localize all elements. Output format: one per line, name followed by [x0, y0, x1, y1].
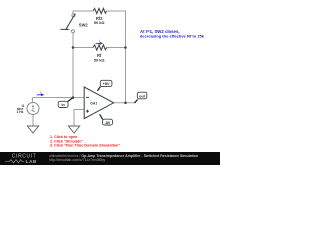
- svg-text:SW2: SW2: [79, 22, 89, 27]
- svg-text:1 Hz: 1 Hz: [17, 110, 24, 114]
- svg-text:LAB: LAB: [26, 159, 37, 164]
- svg-text:50 kΩ: 50 kΩ: [94, 20, 105, 25]
- svg-text:3. Click “Run Time Domain Simu: 3. Click “Run Time Domain Simulation”: [50, 144, 120, 148]
- svg-text:out: out: [139, 94, 146, 98]
- svg-text:1. Click to open: 1. Click to open: [50, 135, 78, 139]
- svg-text:http://circuitlab.com/c/711z7x: http://circuitlab.com/c/711z7xm3f6by: [49, 158, 106, 162]
- svg-text:50 kΩ: 50 kΩ: [94, 57, 105, 62]
- svg-text:2. Click “Simulate”: 2. Click “Simulate”: [50, 139, 83, 143]
- svg-text:+8V: +8V: [103, 82, 110, 86]
- svg-text:OA1: OA1: [90, 102, 97, 106]
- svg-text:decreasing the effective Rf to: decreasing the effective Rf to 25k: [140, 33, 205, 38]
- svg-text:-8V: -8V: [105, 121, 111, 125]
